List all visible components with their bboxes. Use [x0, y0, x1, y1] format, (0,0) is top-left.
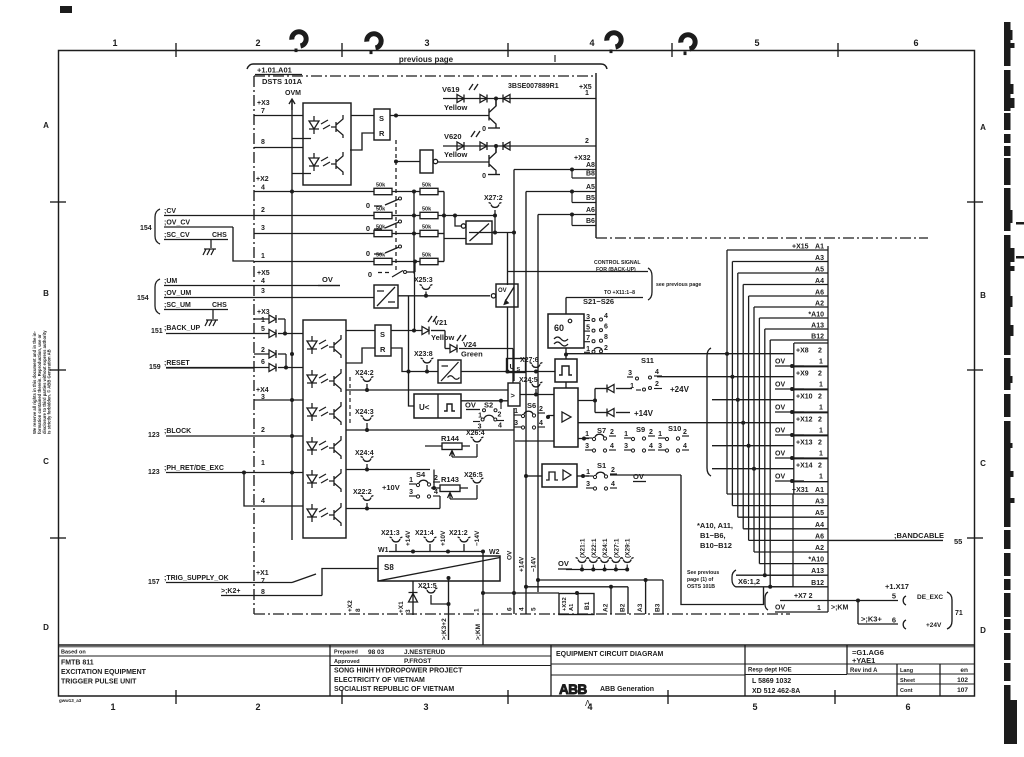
group 154 UM signals — [137, 278, 254, 314]
svg-text:CHS: CHS — [212, 232, 227, 239]
wire X22 row to S4 — [439, 496, 441, 509]
svg-text:6: 6 — [604, 324, 608, 331]
svg-text:SONG HINH HYDROPOWER PROJECT: SONG HINH HYDROPOWER PROJECT — [334, 668, 463, 675]
svg-text:1: 1 — [819, 359, 823, 366]
wire 60deg input — [565, 298, 567, 315]
wire A8 row — [514, 168, 574, 172]
svg-text:A13: A13 — [811, 568, 824, 575]
svg-text:1: 1 — [514, 408, 518, 415]
svg-text:V620: V620 — [444, 132, 462, 141]
svg-text:B: B — [980, 291, 986, 300]
zone numbers top — [112, 38, 918, 48]
svg-text:7: 7 — [261, 578, 265, 585]
svg-text:A3: A3 — [637, 603, 644, 612]
svg-text:is strictly forbidden. © ABB: is strictly forbidden. © ABB Generation … — [47, 349, 52, 434]
svg-text:OV: OV — [775, 474, 785, 481]
svg-text:>;KM: >;KM — [475, 624, 482, 640]
switch box 0V S3 — [491, 284, 518, 307]
svg-text:A4: A4 — [815, 522, 824, 529]
pin labels +X5 4 3 — [257, 270, 270, 295]
svg-text:1: 1 — [817, 605, 821, 612]
svg-text:D: D — [980, 626, 986, 635]
wire +X4 3 row into opto — [254, 398, 303, 402]
optocoupler element 1b — [309, 152, 343, 175]
zone tick marks top — [176, 43, 838, 62]
wire rail OV label rotated — [507, 550, 514, 611]
svg-text:A5: A5 — [586, 184, 595, 191]
wire control signal row — [508, 271, 648, 273]
wire dashed divider inside unit — [349, 377, 351, 424]
diode V619 — [443, 95, 596, 103]
wire A6 row — [538, 213, 574, 217]
svg-text:102: 102 — [957, 677, 968, 684]
svg-text:+10V: +10V — [440, 530, 447, 546]
converter box U8 minus-sine — [438, 360, 461, 383]
wire KM row to X32 box — [483, 591, 579, 595]
svg-text:50k: 50k — [376, 207, 386, 213]
pulse driver box U13 — [542, 464, 577, 487]
connector X24:4 — [355, 450, 374, 472]
punch hole 3 — [607, 33, 621, 53]
svg-text:gww13_a3: gww13_a3 — [59, 698, 82, 703]
label US box — [507, 359, 526, 374]
svg-text:+YAE1: +YAE1 — [852, 656, 875, 665]
svg-text:B6: B6 — [586, 218, 595, 225]
svg-text:S4: S4 — [416, 470, 426, 479]
wire row4 to switch — [413, 260, 417, 273]
resistor R144 — [425, 434, 477, 457]
punch hole 4 — [681, 35, 695, 55]
svg-text:B12: B12 — [811, 580, 824, 587]
svg-text:FOR (BACK-UP): FOR (BACK-UP) — [596, 267, 636, 273]
switch contact 0 row3 — [366, 245, 402, 258]
svg-text:J.NESTERUD: J.NESTERUD — [404, 649, 445, 656]
drawing frame border — [59, 51, 975, 697]
label OV bottom bus — [558, 559, 572, 569]
wire bottom bus B — [536, 578, 663, 582]
label CONTROL SIGNAL FOR BACK-UP — [594, 260, 641, 273]
svg-text:S9: S9 — [636, 425, 645, 434]
switch S2 contacts — [473, 409, 504, 431]
svg-text:X21:5: X21:5 — [418, 583, 437, 590]
svg-text:OV: OV — [775, 428, 785, 435]
brace ladder group — [707, 348, 711, 476]
signal RESET — [149, 360, 254, 371]
svg-text:3: 3 — [514, 420, 518, 427]
svg-text:R143: R143 — [441, 475, 459, 484]
svg-text:0: 0 — [368, 270, 372, 279]
svg-text:DSTS 101A: DSTS 101A — [262, 77, 303, 86]
svg-text:+14V: +14V — [519, 556, 526, 572]
svg-text:159: 159 — [149, 364, 161, 371]
wire S8 out to K3 — [447, 576, 451, 640]
svg-text:1: 1 — [819, 428, 823, 435]
wire opto1 out to S — [351, 115, 374, 117]
diode V619 row label — [442, 84, 478, 112]
zone tick marks bottom — [176, 690, 835, 704]
svg-text:4: 4 — [610, 443, 614, 450]
svg-text:page (1) of: page (1) of — [687, 577, 713, 583]
svg-text:;BLOCK: ;BLOCK — [164, 428, 191, 435]
svg-text:2: 2 — [655, 381, 659, 388]
svg-text:50k: 50k — [422, 225, 432, 231]
svg-text:Λ: Λ — [585, 699, 591, 708]
see previous page note — [687, 570, 719, 590]
svg-text:50k: 50k — [376, 253, 386, 259]
svg-text:(X21:1: (X21:1 — [580, 538, 587, 558]
svg-text:(X22:1: (X22:1 — [591, 538, 598, 558]
wire driver out to diodes — [578, 389, 597, 413]
svg-text:3: 3 — [261, 225, 265, 232]
zone numbers bottom — [110, 702, 910, 712]
transistor Q2 — [482, 146, 500, 180]
title block: object designation — [850, 648, 884, 674]
svg-text:+X13: +X13 — [796, 440, 813, 447]
svg-text:1: 1 — [261, 253, 265, 260]
svg-text:3: 3 — [405, 609, 412, 613]
svg-text:4: 4 — [604, 313, 608, 320]
wire opto2b to SR2 R — [346, 348, 375, 363]
wire vertical bus v526 — [525, 192, 527, 615]
svg-text:5: 5 — [752, 702, 757, 712]
driver box U12 — [554, 388, 578, 447]
svg-text:+X4: +X4 — [256, 387, 269, 394]
svg-text:OV: OV — [633, 472, 644, 481]
terminal box +X32 A1 B1 — [559, 594, 594, 615]
wire X24:2 row — [346, 389, 508, 391]
svg-text:71: 71 — [955, 610, 963, 617]
svg-text:2: 2 — [818, 371, 822, 378]
diode pair RESET — [166, 350, 303, 372]
svg-text:2: 2 — [818, 417, 822, 424]
wire S output to transistor V619 — [390, 114, 489, 118]
optocoupler element 2e — [307, 469, 341, 492]
svg-text:*A10: *A10 — [808, 557, 824, 564]
svg-text:A1: A1 — [569, 603, 575, 611]
svg-text:B2: B2 — [620, 603, 627, 612]
title block outline — [59, 645, 975, 696]
switch S4 — [409, 470, 440, 498]
svg-text:Rev ind A: Rev ind A — [850, 668, 878, 674]
svg-text:OV: OV — [775, 382, 785, 389]
wire 60deg out — [564, 348, 568, 359]
switch S10 — [658, 424, 689, 452]
svg-text:S10: S10 — [668, 424, 681, 433]
wire +X2 4 row — [254, 190, 374, 194]
wire vertical bus v538 — [537, 215, 539, 593]
svg-text:+X10: +X10 — [796, 394, 813, 401]
svg-text:0: 0 — [482, 173, 486, 180]
scan artifact stripe right edge — [1004, 22, 1024, 744]
brace X6 — [732, 570, 736, 587]
terminal group +X8..+X14 with OV returns — [775, 343, 828, 494]
svg-text:;BACK_UP: ;BACK_UP — [164, 325, 201, 332]
svg-text:107: 107 — [957, 687, 968, 694]
svg-text:2: 2 — [255, 702, 260, 712]
wire converter U8 out to pulse box — [461, 370, 555, 374]
wire X24:3 row — [346, 429, 514, 431]
svg-text:123: 123 — [148, 469, 160, 476]
wire gate out to transistor V620 — [438, 161, 489, 163]
svg-text:2: 2 — [818, 440, 822, 447]
resistor row 4 50k — [254, 253, 444, 265]
svg-text:2: 2 — [818, 348, 822, 355]
svg-text:B1−B6,: B1−B6, — [700, 531, 726, 540]
wire A5 row — [526, 190, 574, 194]
svg-text:50k: 50k — [422, 183, 432, 189]
svg-text:98 03: 98 03 — [368, 649, 385, 656]
svg-text:2: 2 — [261, 347, 265, 354]
svg-text:B: B — [43, 289, 49, 298]
svg-text:Based on: Based on — [61, 650, 86, 656]
svg-text:0: 0 — [366, 224, 370, 233]
svg-text:−14V: −14V — [474, 530, 481, 546]
converter box U5 minus-minus — [374, 285, 398, 308]
wire A3 vertical — [637, 580, 646, 614]
svg-text:;UM: ;UM — [164, 278, 177, 285]
switch S9 — [624, 425, 655, 452]
wire S-row long — [578, 422, 794, 424]
wire K3+ output — [856, 599, 898, 625]
zone letters right — [980, 123, 986, 635]
svg-text:1: 1 — [819, 382, 823, 389]
svg-text:X6:1,2: X6:1,2 — [738, 577, 760, 586]
svg-text:+X8: +X8 — [796, 348, 809, 355]
svg-text:3: 3 — [585, 443, 589, 450]
svg-text:1: 1 — [261, 460, 265, 467]
diode V22 — [595, 385, 632, 393]
svg-text:3: 3 — [424, 38, 429, 48]
wire ladder right edge extension — [828, 588, 942, 629]
svg-text:+X14: +X14 — [796, 463, 813, 470]
wire W1 W2 row — [389, 551, 483, 553]
svg-text:FMTB 811: FMTB 811 — [61, 660, 94, 667]
svg-text:ABB Generation: ABB Generation — [600, 686, 654, 693]
svg-text:S: S — [380, 330, 385, 339]
svg-text:X24:5: X24:5 — [519, 377, 538, 384]
undervoltage box U9 — [414, 394, 461, 418]
svg-text:EQUIPMENT CIRCUIT DIAGRAM: EQUIPMENT CIRCUIT DIAGRAM — [556, 651, 664, 658]
pin labels 2 3 1 — [261, 207, 265, 260]
svg-text:B1: B1 — [584, 601, 591, 610]
svg-text:6: 6 — [261, 359, 265, 366]
wire U9 out to comparator — [461, 399, 508, 409]
svg-text:+X32: +X32 — [562, 597, 568, 611]
wire resistor right vertical — [412, 190, 444, 274]
svg-text:OV: OV — [775, 359, 785, 366]
wire rail -14V label rotated — [531, 556, 538, 611]
wire bundle verticals — [727, 250, 770, 587]
svg-text:2: 2 — [604, 345, 608, 352]
label OV S2 — [465, 401, 493, 410]
svg-text:+X31: +X31 — [792, 487, 809, 494]
switch S11 — [627, 356, 662, 391]
svg-text:TO +X11:1−8: TO +X11:1−8 — [604, 290, 635, 296]
phase shifter box 60deg — [548, 314, 584, 348]
svg-text:B5: B5 — [586, 195, 595, 202]
svg-text:1: 1 — [112, 38, 117, 48]
optocoupler element 2c — [307, 402, 341, 425]
svg-text:TRIGGER PULSE UNIT: TRIGGER PULSE UNIT — [61, 679, 137, 686]
svg-text:Approved: Approved — [334, 659, 360, 665]
label W1 W2 — [378, 547, 500, 556]
brace output group 71 — [947, 592, 963, 629]
label OV at S1 — [633, 472, 646, 482]
wire LED2 return to OVM rail — [292, 173, 311, 175]
bus 0V connectors X21:1..X29:1 — [566, 538, 634, 571]
svg-text:OV: OV — [775, 405, 785, 412]
wire S4 to R143 — [433, 470, 435, 489]
svg-text:(X24:1: (X24:1 — [602, 538, 609, 558]
svg-text:1: 1 — [819, 451, 823, 458]
svg-text:+X32: +X32 — [574, 155, 591, 162]
svg-text:1: 1 — [630, 383, 634, 390]
svg-text:A2: A2 — [815, 545, 824, 552]
label A10 A11 B1-B6 B10-B12 — [697, 521, 733, 550]
svg-text:X24:4: X24:4 — [355, 450, 374, 457]
pin +X5 1 — [579, 84, 592, 97]
svg-text:1: 1 — [624, 431, 628, 438]
svg-text:S21−S26: S21−S26 — [583, 297, 614, 306]
svg-text:1: 1 — [585, 431, 589, 438]
svg-text:V21: V21 — [434, 318, 447, 327]
wire v526 to U13 — [524, 474, 542, 478]
resistor row 3 50k — [254, 225, 444, 237]
svg-text:V24: V24 — [463, 340, 477, 349]
title block: lang sheet cont — [900, 667, 968, 694]
wire TO +X11 row — [566, 290, 643, 298]
svg-text:X27:2: X27:2 — [484, 195, 503, 202]
svg-text:+X7 2: +X7 2 — [794, 593, 813, 600]
node OVM rail label and arrow — [285, 90, 301, 110]
zone letters left — [43, 121, 49, 632]
wire K3+2 vertical — [441, 618, 448, 640]
svg-text:;OV_UM: ;OV_UM — [164, 290, 191, 297]
svg-text:W2: W2 — [489, 549, 500, 556]
label +X1 3 rotated — [398, 601, 412, 613]
title block: resp dept — [748, 668, 800, 696]
svg-text:S: S — [517, 367, 521, 373]
svg-text:1: 1 — [586, 469, 590, 476]
wire SR2 R out to converter — [391, 348, 438, 372]
svg-text:3: 3 — [423, 702, 428, 712]
svg-text:1: 1 — [110, 702, 115, 712]
svg-text:S2: S2 — [484, 401, 493, 410]
switch S21-S26 contacts — [584, 313, 608, 353]
wire opto2a to SR2 — [346, 330, 375, 332]
svg-text:2: 2 — [818, 463, 822, 470]
svg-text:123: 123 — [148, 432, 160, 439]
optocoupler box U6 — [303, 320, 346, 538]
wire node to gate input — [394, 160, 420, 164]
svg-text:XD 512 462-8A: XD 512 462-8A — [752, 688, 800, 695]
wire driver input 2 — [515, 440, 554, 442]
connector X23:8 — [414, 351, 433, 374]
svg-text:Sheet: Sheet — [900, 678, 915, 684]
wire row3 to multiplier — [444, 238, 466, 240]
wire comparator out to driver — [520, 394, 554, 396]
wire pin3 to converter — [254, 297, 374, 299]
wire OVM vertical rail — [291, 100, 293, 540]
svg-text:A2: A2 — [603, 603, 610, 612]
wire bandcable — [828, 531, 962, 546]
svg-text:;SC_CV: ;SC_CV — [164, 232, 190, 239]
svg-text:OV: OV — [498, 288, 507, 294]
svg-text:;OV_CV: ;OV_CV — [164, 220, 190, 227]
svg-text:D: D — [43, 623, 49, 632]
svg-text:5: 5 — [754, 38, 759, 48]
optocoupler element 2f — [307, 503, 341, 526]
svg-text:4: 4 — [655, 369, 659, 376]
svg-text:DE_EXC: DE_EXC — [917, 594, 943, 601]
svg-text:A5: A5 — [815, 510, 824, 517]
wire SR2 S out — [391, 329, 422, 333]
svg-text:OV: OV — [465, 401, 476, 410]
svg-text:+X5: +X5 — [257, 270, 270, 277]
diode V23 — [595, 409, 630, 417]
svg-text:3: 3 — [586, 481, 590, 488]
svg-text:3: 3 — [628, 370, 632, 377]
wire switch down to SR2 out — [414, 272, 416, 331]
svg-text:−14V: −14V — [531, 556, 538, 572]
wire PH_RET branch to pin 4 — [242, 471, 254, 507]
svg-text:+X9: +X9 — [796, 371, 809, 378]
svg-text:6: 6 — [913, 38, 918, 48]
wire multiplier out — [492, 231, 516, 235]
svg-text:;RESET: ;RESET — [164, 360, 190, 367]
svg-text:(X27:1: (X27:1 — [613, 538, 620, 558]
switch S7 — [578, 426, 616, 452]
svg-text:4: 4 — [519, 607, 526, 611]
wire bottom bus C — [524, 585, 628, 589]
svg-text:4: 4 — [539, 420, 543, 427]
gate U3 with output bubble — [420, 150, 438, 173]
svg-text:S8: S8 — [384, 563, 394, 572]
connector X22:2 — [353, 489, 373, 511]
svg-text:R144: R144 — [441, 434, 460, 443]
diode V620 — [443, 142, 596, 150]
svg-text:See previous: See previous — [687, 570, 719, 576]
svg-text:A: A — [980, 123, 986, 132]
svg-text:+X2: +X2 — [256, 176, 269, 183]
switch contact 0 row1 — [366, 197, 402, 210]
punch hole 2 — [367, 34, 381, 54]
svg-text:Yellow: Yellow — [431, 333, 455, 342]
wire bundle nested bottom — [727, 494, 793, 587]
svg-text:2: 2 — [539, 406, 543, 413]
svg-text:A6: A6 — [815, 533, 824, 540]
pin labels +X2 4 — [256, 176, 269, 192]
wire A2 vertical — [603, 585, 614, 614]
signal BLOCK — [148, 428, 254, 439]
svg-text:X21:4: X21:4 — [415, 530, 434, 537]
resistor R143 — [431, 475, 477, 499]
svg-text:2: 2 — [610, 429, 614, 436]
svg-text:1: 1 — [819, 474, 823, 481]
svg-text:;BANDCABLE: ;BANDCABLE — [894, 531, 944, 540]
wire OV_CV to pin 1 — [233, 227, 254, 261]
connector X25:3 — [414, 277, 433, 298]
svg-text:X27:6: X27:6 — [520, 357, 539, 364]
svg-text:6: 6 — [905, 702, 910, 712]
svg-text:0: 0 — [482, 126, 486, 133]
svg-text:4: 4 — [649, 443, 653, 450]
svg-text:4: 4 — [261, 498, 265, 505]
svg-text:60: 60 — [554, 323, 564, 333]
svg-text:55: 55 — [954, 537, 962, 546]
connector X21:4 +10V — [415, 530, 450, 554]
svg-text:CHS: CHS — [212, 302, 227, 309]
